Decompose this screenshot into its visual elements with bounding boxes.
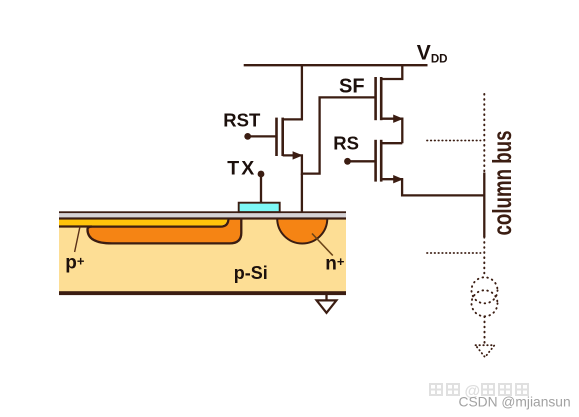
svg-text:p-Si: p-Si <box>234 263 268 283</box>
svg-text:RST: RST <box>223 109 261 130</box>
svg-text:TX: TX <box>227 158 256 180</box>
svg-text:RS: RS <box>333 133 359 154</box>
svg-text:CSDN @mjiansun: CSDN @mjiansun <box>459 394 571 409</box>
svg-text:column bus: column bus <box>487 131 517 236</box>
svg-text:SF: SF <box>339 76 365 98</box>
